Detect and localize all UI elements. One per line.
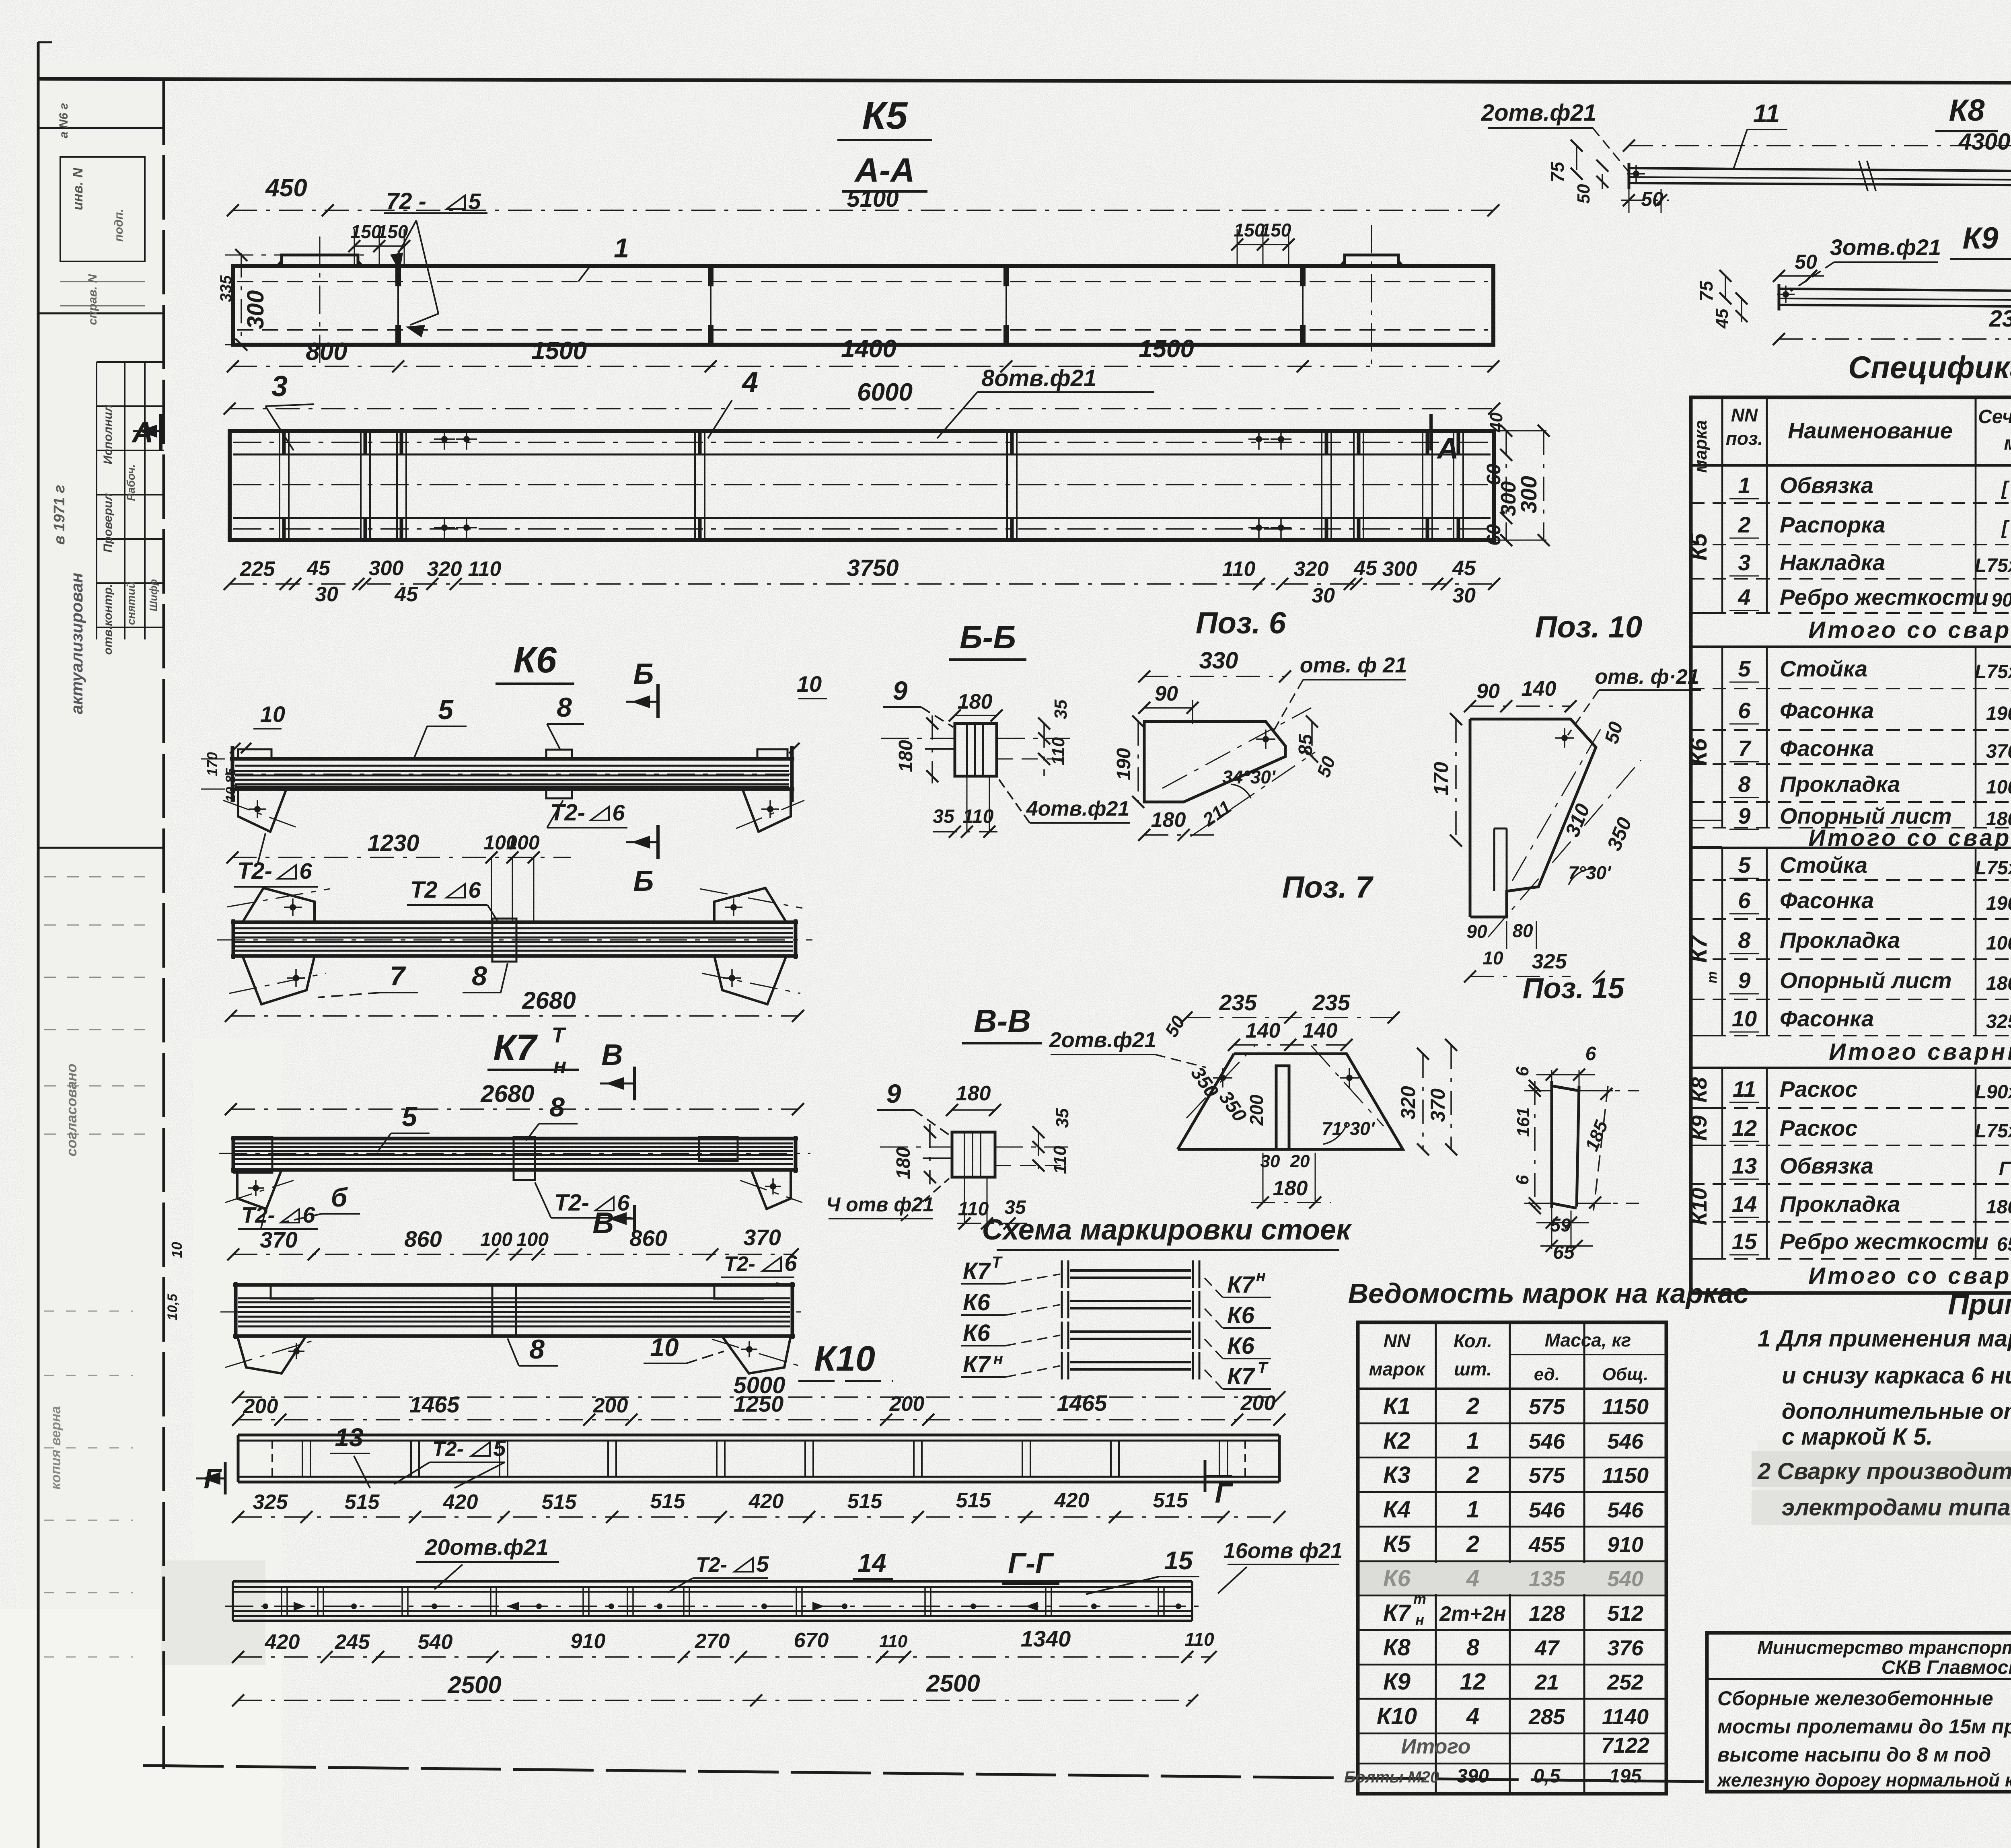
svg-text:[ 30: [ 30 <box>2001 478 2011 499</box>
svg-text:100х10: 100х10 <box>1986 777 2011 798</box>
svg-text:Ребро жесткости: Ребро жесткости <box>1780 1229 1988 1254</box>
svg-text:шт.: шт. <box>1454 1359 1492 1379</box>
svg-text:К10: К10 <box>1377 1703 1417 1729</box>
svg-text:5: 5 <box>402 1102 417 1132</box>
svg-text:3750: 3750 <box>847 555 899 581</box>
svg-text:5: 5 <box>1738 656 1751 681</box>
svg-text:110: 110 <box>1222 557 1256 581</box>
svg-text:110: 110 <box>879 1632 908 1651</box>
svg-text:335: 335 <box>217 275 235 302</box>
svg-text:6: 6 <box>617 1190 630 1215</box>
svg-text:546: 546 <box>1529 1429 1565 1453</box>
beam G-G body <box>233 1580 1192 1583</box>
svg-text:200: 200 <box>593 1394 628 1417</box>
svg-text:515: 515 <box>542 1490 577 1514</box>
svg-text:370х10: 370х10 <box>1986 741 2011 762</box>
svg-text:К8: К8 <box>1383 1634 1411 1661</box>
svg-text:285: 285 <box>1528 1705 1565 1729</box>
svg-text:Г: Г <box>1215 1477 1234 1509</box>
bottom dims K10 <box>238 1516 1279 1518</box>
svg-text:420: 420 <box>443 1490 478 1514</box>
svg-text:1: 1 <box>1466 1496 1479 1523</box>
svg-text:35: 35 <box>1004 1197 1026 1218</box>
svg-text:К10: К10 <box>1687 1188 1711 1225</box>
sidebar signature table <box>97 361 164 363</box>
svg-text:6: 6 <box>302 1202 315 1227</box>
svg-text:540: 540 <box>418 1630 453 1654</box>
svg-text:2отв.ф21: 2отв.ф21 <box>1049 1028 1157 1052</box>
plate Б-Б <box>955 724 997 776</box>
arrows on G-G beam <box>305 1606 306 1607</box>
svg-text:2: 2 <box>1466 1462 1479 1488</box>
svg-text:NN: NN <box>1384 1330 1411 1351</box>
svg-text:6000: 6000 <box>857 378 913 406</box>
section mark V bottom <box>633 1205 636 1231</box>
svg-text:75: 75 <box>1547 161 1568 183</box>
svg-text:А-А: А-А <box>854 151 915 189</box>
svg-text:180х10: 180х10 <box>1986 1196 2011 1218</box>
svg-text:180: 180 <box>1151 808 1186 832</box>
section mark A right <box>1429 414 1433 450</box>
svg-text:252: 252 <box>1607 1670 1643 1694</box>
svg-text:180: 180 <box>893 1147 914 1179</box>
bar K6 body <box>230 757 794 761</box>
svg-text:в 1971 г: в 1971 г <box>51 485 68 545</box>
svg-text:Шифр: Шифр <box>147 579 159 611</box>
svg-text:6: 6 <box>612 800 625 825</box>
svg-text:800: 800 <box>306 338 347 366</box>
svg-text:6: 6 <box>1585 1043 1596 1065</box>
svg-text:140: 140 <box>1522 677 1557 701</box>
beam K5 plan stiffeners <box>279 432 280 539</box>
svg-text:высоте насыпи до 8 м под: высоте насыпи до 8 м под <box>1717 1743 1991 1766</box>
svg-text:376: 376 <box>1607 1636 1644 1660</box>
svg-text:195: 195 <box>1609 1766 1642 1787</box>
svg-text:Итого со сварными шбами:: Итого со сварными шбами: <box>1808 617 2011 643</box>
svg-text:100: 100 <box>480 1229 512 1250</box>
svg-text:512: 512 <box>1607 1601 1643 1626</box>
svg-text:180х10: 180х10 <box>1986 973 2011 994</box>
svg-text:и снизу каркаса 6 них пр: и снизу каркаса 6 них просверлены <box>1782 1363 2011 1389</box>
svg-text:35: 35 <box>1053 1108 1072 1128</box>
svg-text:50: 50 <box>1574 184 1594 204</box>
sidebar stamp box 2 <box>60 281 145 282</box>
svg-text:8: 8 <box>557 692 572 723</box>
svg-text:Фасонка: Фасонка <box>1780 888 1874 913</box>
svg-text:200: 200 <box>243 1395 278 1418</box>
svg-text:Фасонка: Фасонка <box>1780 1006 1874 1031</box>
svg-text:К6: К6 <box>963 1320 991 1346</box>
note 2 grey band <box>1752 1451 2011 1487</box>
svg-text:370: 370 <box>260 1227 297 1252</box>
svg-text:320: 320 <box>1397 1086 1419 1120</box>
bolt crosses Poz7 <box>1213 1077 1232 1079</box>
svg-text:2680: 2680 <box>522 987 576 1014</box>
svg-text:К9: К9 <box>1383 1669 1411 1695</box>
svg-text:Ребро жесткости: Ребро жесткости <box>1780 584 1988 610</box>
svg-text:Ведомость марок на каркас: Ведомость марок на каркас <box>1348 1278 1749 1309</box>
svg-text:14: 14 <box>1732 1191 1757 1217</box>
svg-text:200: 200 <box>1240 1392 1276 1415</box>
svg-text:30: 30 <box>315 583 338 606</box>
svg-text:5: 5 <box>1738 852 1751 878</box>
title block top divider <box>1707 1678 2011 1680</box>
svg-text:3: 3 <box>271 370 288 403</box>
svg-text:К8: К8 <box>1949 93 1985 127</box>
svg-text:180: 180 <box>958 690 993 713</box>
svg-text:1 Для применения марки: 1 Для применения марки К 10 сверху <box>1758 1326 2011 1352</box>
svg-text:15: 15 <box>1164 1546 1193 1575</box>
svg-text:2: 2 <box>1466 1393 1479 1419</box>
plate V-V <box>952 1132 995 1177</box>
svg-text:2680: 2680 <box>480 1080 534 1107</box>
svg-text:железную дорогу нормальной кол: железную дорогу нормальной кол. <box>1716 1770 2011 1790</box>
svg-text:15: 15 <box>1732 1229 1757 1254</box>
svg-text:180: 180 <box>1273 1177 1308 1200</box>
beam K5 right tab centerline <box>1371 225 1372 364</box>
svg-text:б: б <box>331 1182 348 1212</box>
beam K5 left tab centerline <box>319 236 321 364</box>
svg-text:200: 200 <box>1246 1094 1267 1126</box>
bar K8 left end <box>1628 163 1631 189</box>
svg-text:100х10: 100х10 <box>1986 933 2011 954</box>
svg-text:10,85: 10,85 <box>223 767 239 802</box>
svg-text:2500: 2500 <box>926 1670 980 1697</box>
bar K7 body <box>231 1137 798 1141</box>
svg-text:инв. N: инв. N <box>70 167 86 210</box>
svg-text:225: 225 <box>240 557 276 581</box>
svg-text:6: 6 <box>468 877 481 902</box>
svg-text:150: 150 <box>1260 220 1291 241</box>
svg-text:Т: Т <box>552 1023 567 1047</box>
svg-text:515: 515 <box>847 1490 883 1513</box>
bar K6 right gusset <box>742 789 791 832</box>
svg-text:1340: 1340 <box>1021 1626 1071 1651</box>
svg-text:с маркой К 5.: с маркой К 5. <box>1782 1424 1933 1450</box>
svg-text:34°30': 34°30' <box>1222 767 1276 787</box>
svg-text:[ 30: [ 30 <box>2001 517 2011 539</box>
svg-text:21: 21 <box>1534 1670 1559 1694</box>
right gussets of K6 plan <box>714 888 786 922</box>
svg-text:7: 7 <box>1738 736 1752 761</box>
svg-text:Спецификация: Спецификация <box>1848 349 2011 385</box>
svg-text:245: 245 <box>335 1630 370 1654</box>
svg-text:12: 12 <box>1732 1115 1757 1141</box>
svg-text:К6: К6 <box>1686 738 1712 766</box>
svg-text:2т+2н: 2т+2н <box>1439 1602 1506 1626</box>
svg-text:поз.: поз. <box>1726 428 1763 449</box>
svg-text:ед.: ед. <box>1534 1365 1560 1384</box>
svg-text:В: В <box>601 1038 623 1071</box>
svg-text:420: 420 <box>748 1490 784 1513</box>
svg-text:Масса, кг: Масса, кг <box>1545 1330 1631 1351</box>
svg-text:К5: К5 <box>862 94 908 137</box>
svg-text:110: 110 <box>1049 737 1068 765</box>
svg-text:Поз. 6: Поз. 6 <box>1196 606 1286 640</box>
plate top-left K7n <box>271 1285 314 1299</box>
svg-text:т: т <box>1413 1591 1426 1607</box>
shape Poz15 plate <box>1550 1081 1553 1208</box>
svg-text:546: 546 <box>1607 1498 1644 1522</box>
svg-text:35: 35 <box>1051 699 1071 719</box>
svg-text:4300: 4300 <box>1958 129 2010 155</box>
right gusset K7n <box>722 1336 791 1373</box>
svg-text:190: 190 <box>1113 748 1135 780</box>
title block outer <box>1707 1633 2011 1792</box>
beam K5 body <box>233 266 1493 345</box>
svg-text:30: 30 <box>1452 584 1476 607</box>
svg-text:390: 390 <box>1457 1766 1489 1787</box>
svg-text:1: 1 <box>614 233 629 263</box>
svg-text:К6: К6 <box>1227 1333 1255 1359</box>
svg-text:Итого со сварными шбами:: Итого со сварными шбами: <box>1808 1263 2011 1289</box>
svg-text:90: 90 <box>1155 682 1178 705</box>
svg-text:50: 50 <box>1641 188 1663 210</box>
svg-text:910: 910 <box>571 1630 606 1653</box>
svg-text:3: 3 <box>1738 550 1750 575</box>
right gusset K7 <box>751 1170 791 1209</box>
svg-text:К7: К7 <box>1383 1600 1412 1626</box>
svg-text:1230: 1230 <box>367 830 419 856</box>
svg-text:Примечания: Примечания <box>1948 1289 2011 1321</box>
svg-text:L75х75х8: L75х75х8 <box>1975 661 2011 682</box>
svg-text:1: 1 <box>1738 473 1750 498</box>
spec group divider lines in marka col <box>1691 612 1722 614</box>
bottom dims of K5 <box>233 366 1493 367</box>
svg-text:9: 9 <box>1738 803 1750 828</box>
svg-text:В: В <box>592 1206 614 1240</box>
svg-text:910: 910 <box>1607 1533 1643 1557</box>
svg-text:65: 65 <box>1553 1242 1575 1263</box>
svg-text:7: 7 <box>390 961 406 991</box>
svg-text:К3: К3 <box>1383 1462 1411 1488</box>
svg-text:80: 80 <box>1512 920 1533 941</box>
svg-text:4отв.ф21: 4отв.ф21 <box>1026 797 1130 820</box>
svg-text:Ч отв ф21: Ч отв ф21 <box>826 1193 934 1216</box>
svg-text:2500: 2500 <box>447 1671 501 1698</box>
svg-text:150: 150 <box>377 221 408 242</box>
svg-text:Опорный лист: Опорный лист <box>1780 968 1952 993</box>
beam K5 left bearing tab <box>282 255 358 266</box>
sidebar divider lines <box>38 127 164 129</box>
svg-text:1465: 1465 <box>1057 1390 1107 1416</box>
svg-text:546: 546 <box>1607 1429 1644 1453</box>
svg-text:8: 8 <box>1738 771 1751 797</box>
svg-text:190х10: 190х10 <box>1986 893 2011 914</box>
svg-text:н: н <box>1415 1612 1424 1628</box>
plate 8 on bar K6 <box>546 750 572 759</box>
svg-text:Итого: Итого <box>1401 1735 1471 1758</box>
bar K6 plan body <box>231 921 798 924</box>
svg-text:Накладка: Накладка <box>1780 550 1885 575</box>
svg-text:140: 140 <box>1303 1019 1338 1042</box>
bottom dims of plan view <box>230 583 1494 585</box>
svg-text:Т2: Т2 <box>410 877 438 903</box>
svg-text:128: 128 <box>1529 1601 1565 1626</box>
svg-text:370: 370 <box>1427 1088 1449 1122</box>
svg-text:35: 35 <box>933 806 955 827</box>
dim 1230 line <box>232 857 571 858</box>
plate left on K7 <box>234 1137 272 1173</box>
svg-text:11: 11 <box>1733 1076 1756 1102</box>
svg-text:мм: мм <box>2004 433 2011 454</box>
svg-text:3отв.ф21: 3отв.ф21 <box>1830 234 1941 260</box>
svg-text:13: 13 <box>335 1423 363 1452</box>
svg-text:Т2-: Т2- <box>554 1190 589 1216</box>
svg-text:К6: К6 <box>513 639 557 680</box>
svg-text:420: 420 <box>1054 1489 1090 1512</box>
ladder rungs <box>1070 1269 1191 1272</box>
beam K5 plan body <box>230 431 1494 540</box>
svg-text:300: 300 <box>1516 476 1541 513</box>
svg-text:а N6 г: а N6 г <box>57 103 70 138</box>
svg-text:72 -: 72 - <box>386 188 426 214</box>
svg-text:7°30': 7°30' <box>1568 862 1612 883</box>
svg-text:2 Сварку производить по Г: 2 Сварку производить по ГОСТ 5264-69 <box>1757 1458 2011 1484</box>
bar K9 body <box>1779 289 2011 293</box>
svg-text:190х10: 190х10 <box>1986 703 2011 724</box>
vedomost table border <box>1358 1322 1666 1794</box>
svg-text:85: 85 <box>1295 734 1316 756</box>
svg-text:45: 45 <box>1452 557 1476 580</box>
left gusset K7 <box>237 1170 282 1209</box>
plate 8 mid K7n <box>492 1285 516 1336</box>
svg-text:300: 300 <box>1382 557 1417 581</box>
svg-text:К7: К7 <box>963 1351 991 1377</box>
svg-text:4: 4 <box>1466 1703 1479 1729</box>
section mark G right <box>1204 1460 1207 1492</box>
svg-text:К2: К2 <box>1383 1428 1411 1454</box>
svg-text:Поз. 10: Поз. 10 <box>1535 610 1643 644</box>
svg-text:К6: К6 <box>1227 1302 1255 1328</box>
dim 6000 <box>230 408 1494 409</box>
svg-text:300: 300 <box>369 557 404 580</box>
svg-text:К9: К9 <box>1687 1115 1711 1141</box>
svg-text:Распорка: Распорка <box>1780 512 1885 537</box>
svg-text:н: н <box>993 1350 1003 1368</box>
dim 150 150 left <box>354 245 404 247</box>
svg-text:1500: 1500 <box>531 337 587 365</box>
svg-text:5100: 5100 <box>847 186 899 212</box>
svg-text:135: 135 <box>1529 1567 1565 1591</box>
svg-text:1140: 1140 <box>1602 1705 1649 1729</box>
vedomost header <box>1358 1388 1666 1390</box>
svg-text:9: 9 <box>886 1079 901 1108</box>
svg-text:Т2-: Т2- <box>241 1202 275 1227</box>
svg-text:Т2-: Т2- <box>724 1252 755 1276</box>
dim line K8 <box>1629 145 2011 146</box>
svg-text:670: 670 <box>794 1629 829 1652</box>
svg-text:т: т <box>1705 971 1720 983</box>
svg-text:Обвязка: Обвязка <box>1780 1153 1873 1178</box>
svg-text:отв.контр.: отв.контр. <box>101 584 115 655</box>
sheet frame bottom line <box>143 1766 1707 1782</box>
dims 200 1465 ... K10 <box>238 1419 1279 1420</box>
svg-text:Прокладка: Прокладка <box>1780 1191 1900 1217</box>
svg-text:6: 6 <box>1738 888 1751 913</box>
svg-text:200: 200 <box>889 1392 925 1416</box>
svg-text:16отв ф21: 16отв ф21 <box>1223 1539 1343 1563</box>
svg-text:Министерство транспортного с: Министерство транспортного строительства <box>1757 1637 2011 1658</box>
bottom dims G-G row1 <box>238 1656 1211 1658</box>
shape Poz6 <box>1144 722 1285 802</box>
svg-text:L75х75х8: L75х75х8 <box>1975 857 2011 879</box>
svg-text:Т2-: Т2- <box>696 1553 727 1577</box>
svg-text:14: 14 <box>857 1548 886 1577</box>
svg-text:12: 12 <box>1460 1669 1486 1695</box>
svg-text:10: 10 <box>169 1242 185 1258</box>
svg-text:10: 10 <box>1483 948 1503 968</box>
beam K10 stiffeners <box>302 1441 303 1477</box>
svg-text:60: 60 <box>1483 524 1505 546</box>
svg-text:370: 370 <box>743 1225 781 1250</box>
svg-text:К4: К4 <box>1383 1496 1411 1523</box>
svg-text:325х10: 325х10 <box>1986 1011 2011 1032</box>
svg-text:71°30': 71°30' <box>1322 1118 1376 1139</box>
svg-text:10: 10 <box>797 671 822 697</box>
svg-text:8: 8 <box>549 1092 565 1122</box>
svg-text:75: 75 <box>1696 280 1717 302</box>
dim 150 150 right <box>1237 244 1289 245</box>
bar K6 left gusset <box>238 789 286 832</box>
svg-text:Сечение: Сечение <box>1978 406 2011 428</box>
svg-text:L90х90х8: L90х90х8 <box>1975 1081 2011 1103</box>
svg-text:Поз. 15: Поз. 15 <box>1523 972 1625 1005</box>
scan background tint patches <box>24 60 169 1848</box>
svg-text:161: 161 <box>1513 1107 1533 1137</box>
svg-text:170: 170 <box>204 752 220 776</box>
svg-text:Кол.: Кол. <box>1454 1330 1492 1351</box>
svg-text:455: 455 <box>1528 1533 1565 1557</box>
beam G-G stiffeners and bolts <box>281 1587 282 1616</box>
svg-text:Б: Б <box>633 658 654 690</box>
svg-text:235: 235 <box>1219 990 1257 1015</box>
svg-text:4: 4 <box>741 366 758 399</box>
svg-text:860: 860 <box>629 1225 667 1251</box>
svg-text:6: 6 <box>784 1250 797 1276</box>
bar K6 left end cap <box>231 746 234 802</box>
svg-text:5: 5 <box>438 695 454 725</box>
sidebar faint lower blocks <box>44 876 145 878</box>
svg-text:8: 8 <box>472 961 487 991</box>
svg-text:К10: К10 <box>814 1338 875 1378</box>
svg-text:325: 325 <box>1532 950 1567 973</box>
beam K5 plan bolts <box>434 438 455 440</box>
svg-text:СКВ Главмостострой: СКВ Главмостострой <box>1881 1657 2011 1678</box>
svg-text:А: А <box>1436 432 1458 465</box>
svg-text:К7: К7 <box>1227 1272 1256 1298</box>
svg-text:515: 515 <box>956 1489 991 1512</box>
sheet frame inner left vertical <box>162 80 165 1769</box>
svg-text:Т2-: Т2- <box>237 858 272 884</box>
svg-text:Наименование: Наименование <box>1788 418 1953 443</box>
svg-text:н: н <box>1256 1267 1266 1285</box>
svg-text:К7: К7 <box>1686 934 1712 963</box>
svg-text:Г 20: Г 20 <box>1999 1158 2011 1180</box>
svg-text:100: 100 <box>506 831 540 854</box>
paper left edge line <box>37 42 40 1848</box>
plate top-right K7n <box>714 1285 764 1299</box>
svg-text:Рабоч.: Рабоч. <box>125 464 137 501</box>
svg-text:575: 575 <box>1529 1395 1565 1419</box>
svg-text:270: 270 <box>695 1630 730 1653</box>
svg-text:450: 450 <box>265 174 307 202</box>
svg-text:40: 40 <box>1487 412 1506 432</box>
svg-text:2отв.ф21: 2отв.ф21 <box>1481 100 1596 126</box>
svg-text:325: 325 <box>253 1490 288 1514</box>
svg-text:1: 1 <box>1466 1428 1479 1454</box>
svg-text:К7: К7 <box>1227 1363 1256 1390</box>
